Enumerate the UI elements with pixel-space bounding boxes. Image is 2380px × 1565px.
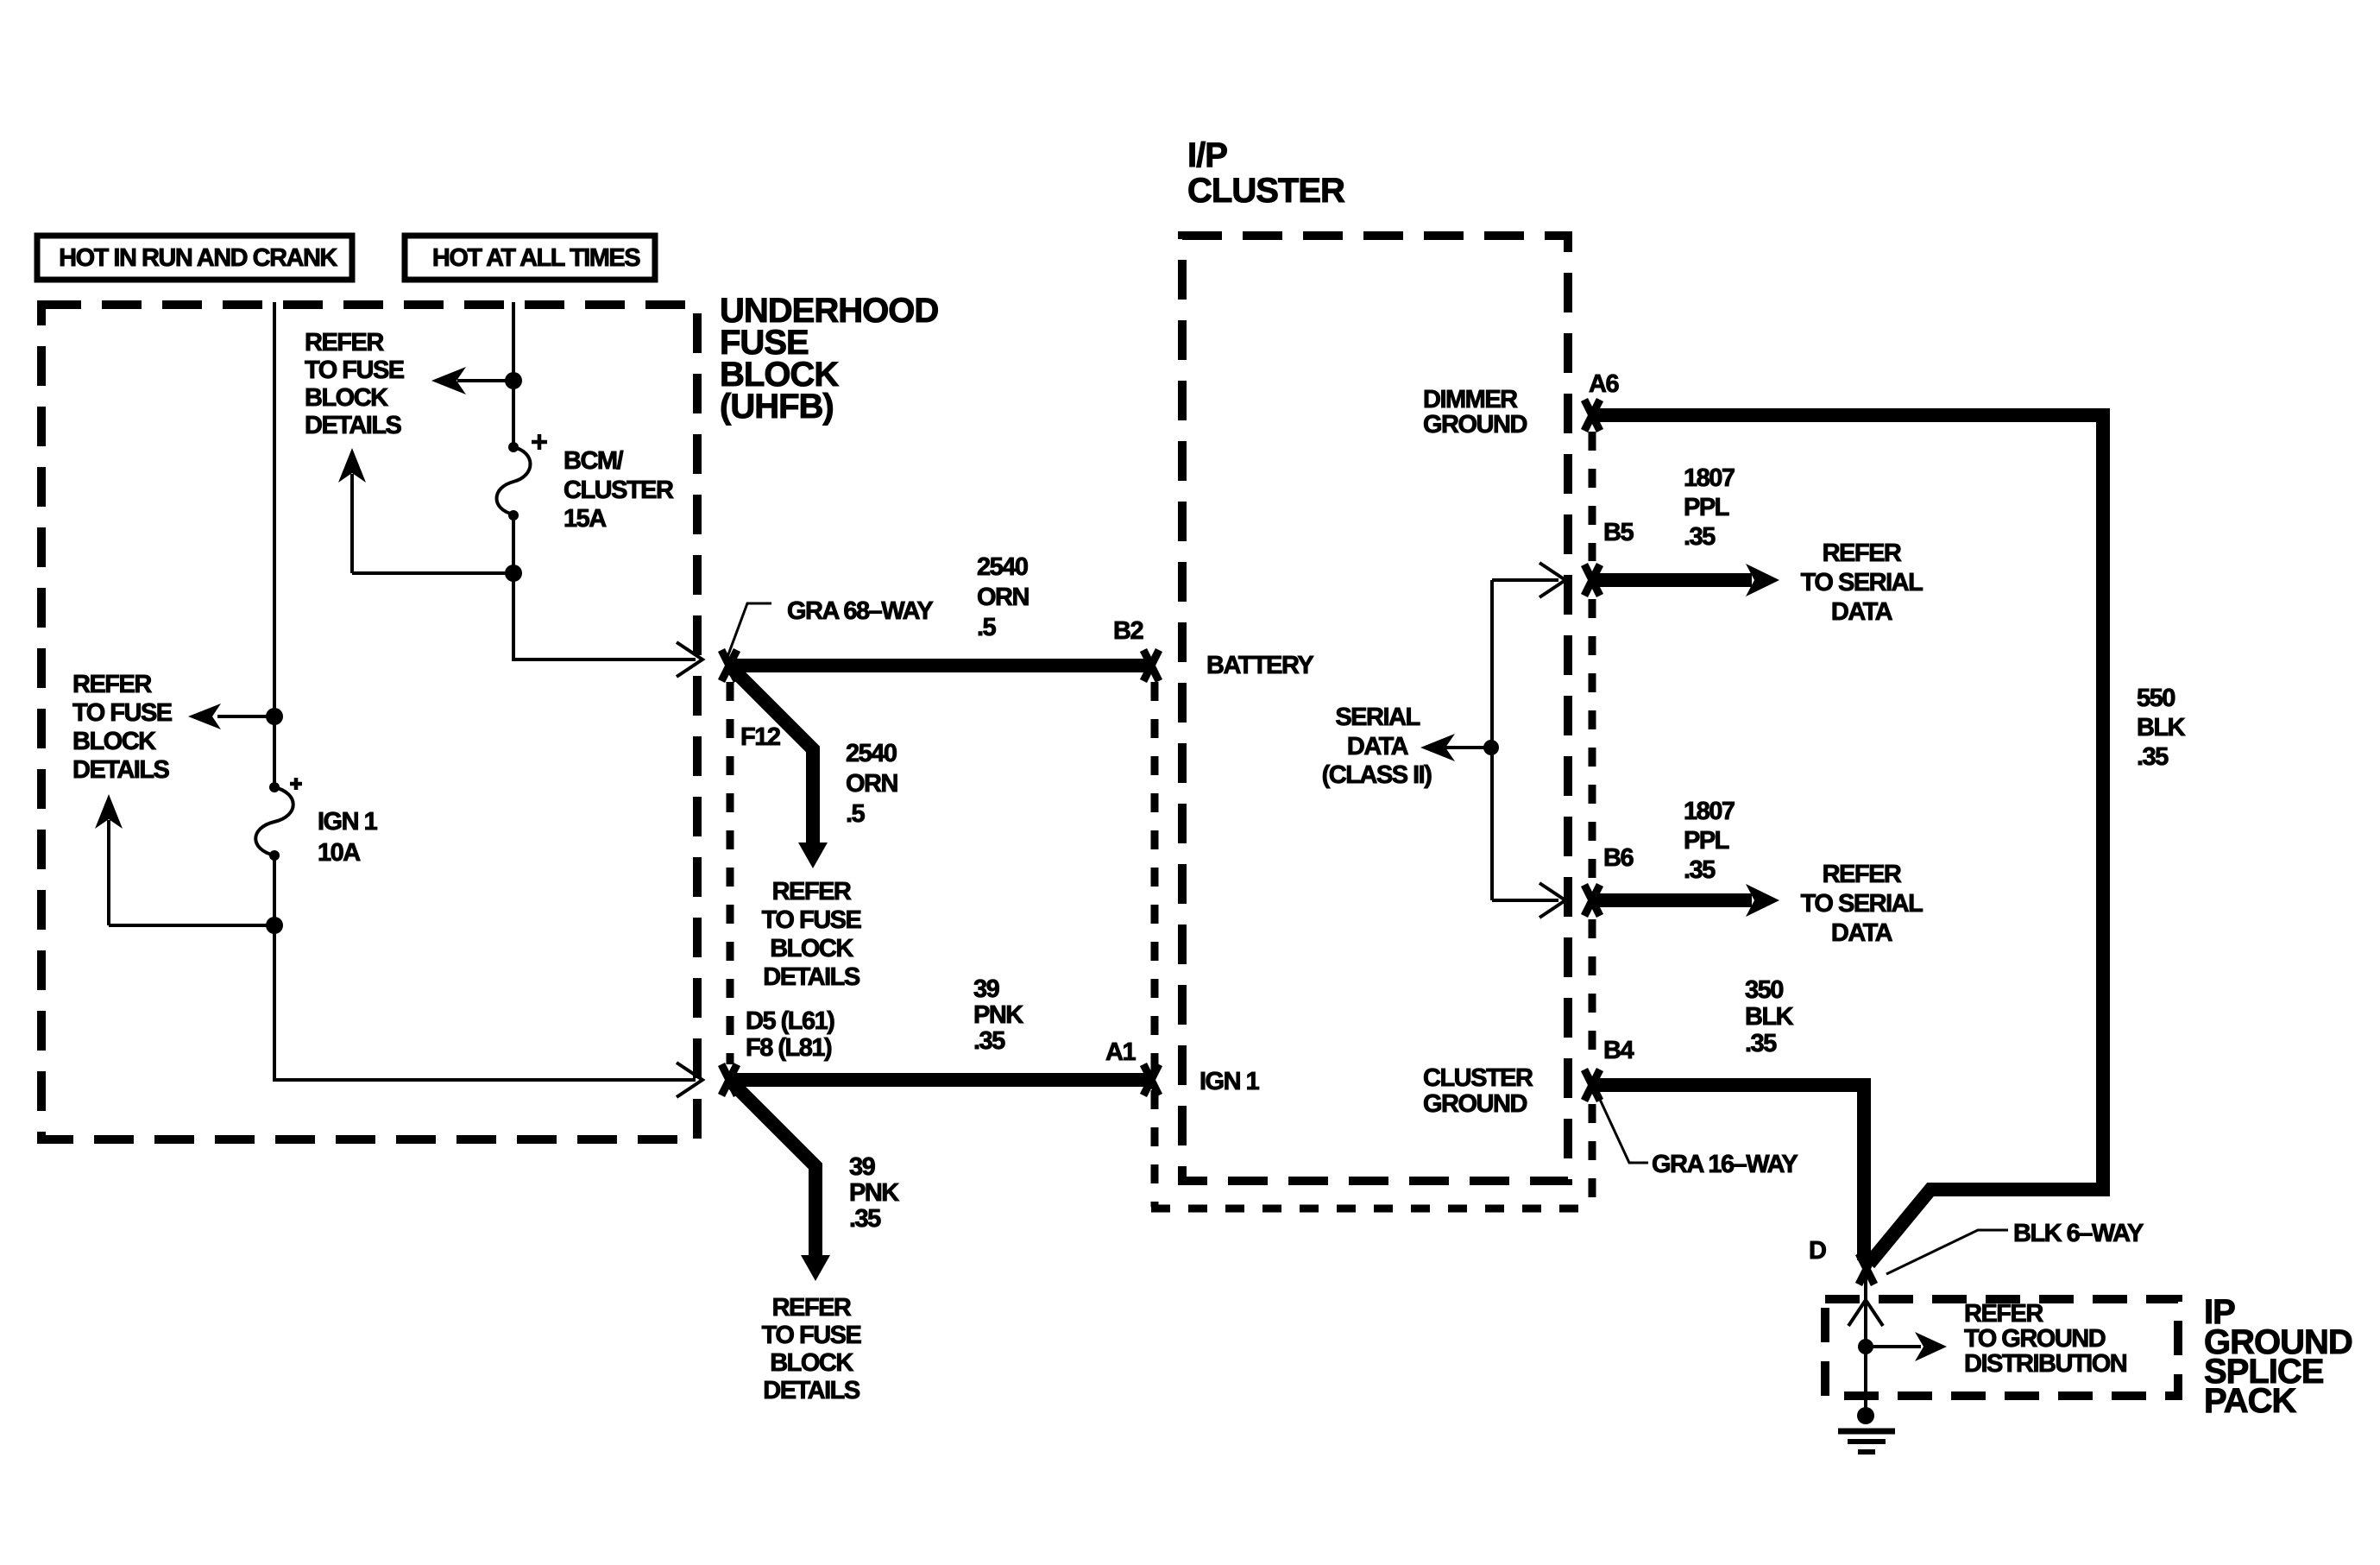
label UNDERHOOD FUSE BLOCK (UHFB)	[720, 292, 938, 426]
wire serial to B5	[1492, 578, 1558, 582]
arrowhead up at refer details 1	[95, 794, 123, 829]
svg-text:39: 39	[849, 1153, 876, 1181]
arrowhead up at refer details 2	[338, 448, 366, 483]
svg-text:B5: B5	[1603, 519, 1634, 546]
node junction dot left branch	[266, 708, 283, 725]
svg-text:TO FUSE: TO FUSE	[762, 906, 862, 934]
open arrowhead at B6	[1539, 883, 1565, 918]
wire IGN1 row to connector	[274, 1078, 696, 1082]
svg-text:BLOCK: BLOCK	[305, 384, 388, 412]
svg-text:REFER: REFER	[1823, 540, 1902, 567]
svg-text:BLOCK: BLOCK	[72, 728, 156, 755]
fuse BCM CLUSTER 15A	[497, 434, 548, 521]
I/P CLUSTER title	[1187, 136, 1345, 210]
svg-text:BLK: BLK	[2137, 714, 2186, 741]
svg-text:1807: 1807	[1684, 798, 1735, 825]
svg-text:BLOCK: BLOCK	[770, 935, 853, 962]
svg-text:IGN 1: IGN 1	[1199, 1068, 1260, 1095]
wire serial to B6	[1492, 899, 1558, 902]
wire arrow to fuse block details left	[217, 715, 274, 718]
svg-text:HOT IN RUN AND CRANK: HOT IN RUN AND CRANK	[59, 244, 337, 272]
arrowhead right B6 to serial data	[1746, 884, 1779, 917]
svg-text:REFER: REFER	[72, 671, 152, 698]
svg-text:TO SERIAL: TO SERIAL	[1801, 569, 1923, 596]
svg-text:DETAILS: DETAILS	[72, 756, 170, 784]
svg-text:1807: 1807	[1684, 464, 1735, 492]
svg-text:A6: A6	[1589, 370, 1619, 398]
svg-text:CLUSTER: CLUSTER	[1423, 1064, 1533, 1092]
UHFB connector face dashed line	[727, 682, 734, 1064]
wire fuse to lower junction	[273, 855, 276, 1082]
label 39 PNK .35 branch	[849, 1153, 899, 1233]
I/P cluster dashed box	[1182, 236, 1568, 1181]
label DIMMER GROUND	[1423, 386, 1527, 439]
cluster connector face dashed line bottom	[1151, 1205, 1596, 1213]
arrowhead left serial data	[1420, 734, 1455, 761]
svg-text:TO GROUND: TO GROUND	[1964, 1325, 2106, 1353]
label 550 BLK .35	[2137, 685, 2186, 771]
wire BCM fuse to junction	[512, 515, 515, 661]
underhood fuse block dashed box	[41, 305, 697, 1139]
wire 1807 PPL .35 thick B5	[1592, 573, 1752, 587]
svg-text:TO FUSE: TO FUSE	[305, 357, 405, 384]
connector D5 F8 X mark	[721, 1064, 737, 1095]
svg-text:CLUSTER: CLUSTER	[564, 476, 674, 504]
svg-text:DETAILS: DETAILS	[763, 1377, 860, 1404]
svg-text:TO FUSE: TO FUSE	[762, 1322, 862, 1349]
label IP GROUND SPLICE PACK	[2204, 1293, 2352, 1420]
svg-text:(CLASS II): (CLASS II)	[1322, 761, 1432, 789]
svg-text:DATA: DATA	[1831, 598, 1893, 626]
arrowhead down refer fuse details 4	[801, 1255, 830, 1281]
leader line BLK 6-WAY	[1886, 1230, 2008, 1274]
svg-text:GROUND: GROUND	[1423, 1090, 1527, 1118]
wire ground splice vertical	[1864, 1273, 1867, 1416]
node ground splice junction dot	[1858, 1339, 1873, 1354]
svg-text:HOT AT ALL TIMES: HOT AT ALL TIMES	[432, 244, 640, 272]
IP ground splice pack dashed box	[1825, 1299, 2178, 1396]
label 39 PNK .35 row A1	[973, 975, 1023, 1055]
connector B6 X mark	[1584, 885, 1600, 916]
svg-text:F12: F12	[740, 723, 780, 751]
wire from HOT IN RUN AND CRANK down	[273, 302, 276, 787]
label REFER TO FUSE BLOCK DETAILS 2	[305, 329, 405, 439]
svg-text:.35: .35	[2137, 743, 2169, 771]
svg-text:TO FUSE: TO FUSE	[72, 699, 173, 727]
svg-text:REFER: REFER	[305, 329, 384, 357]
svg-text:.35: .35	[1684, 523, 1716, 551]
svg-text:.35: .35	[973, 1027, 1005, 1055]
label REFER TO FUSE BLOCK DETAILS 1	[72, 671, 173, 784]
label 1807 PPL .35 B5	[1684, 464, 1735, 551]
svg-text:BCM/: BCM/	[564, 447, 624, 475]
wire 1807 PPL .35 thick B6	[1592, 893, 1752, 907]
svg-text:(UHFB): (UHFB)	[720, 388, 834, 426]
cluster connector face dashed line left	[1151, 682, 1159, 1207]
svg-text:REFER: REFER	[1823, 861, 1902, 888]
connector A1 X mark	[1143, 1064, 1159, 1095]
header box HOT AT ALL TIMES	[405, 236, 655, 280]
wire 550 BLK .35 thick A6 loop	[1592, 415, 2103, 1264]
svg-text:ORN: ORN	[977, 584, 1029, 611]
wire branch to up arrow 2	[352, 474, 513, 573]
wire thick branch down from GRA 68-WAY to fuse details arrow	[729, 666, 813, 845]
wire serial data vertical	[1490, 580, 1494, 900]
svg-text:BLOCK: BLOCK	[770, 1349, 853, 1377]
svg-text:CLUSTER: CLUSTER	[1187, 172, 1345, 210]
svg-text:GROUND: GROUND	[1423, 411, 1527, 439]
svg-text:BLK: BLK	[1745, 1003, 1794, 1031]
svg-text:PPL: PPL	[1684, 494, 1729, 521]
arrowhead down refer fuse details 3	[798, 842, 828, 868]
svg-text:B2: B2	[1113, 617, 1143, 645]
ground symbol	[1838, 1407, 1895, 1452]
node junction dot below BCM fuse	[505, 565, 522, 582]
svg-text:I/P: I/P	[1187, 136, 1227, 174]
label IGN 1 10A	[318, 808, 378, 867]
svg-text:2540: 2540	[846, 740, 897, 767]
label 2540 ORN .5 row B2	[977, 553, 1029, 641]
cluster connector face dashed line right	[1589, 432, 1596, 1208]
connector B2 X mark	[1143, 650, 1159, 681]
arrowhead right ground distribution	[1915, 1332, 1947, 1361]
svg-text:REFER: REFER	[1964, 1300, 2043, 1328]
wire serial data arrow left	[1445, 746, 1492, 749]
header box HOT IN RUN AND CRANK	[37, 236, 352, 280]
svg-text:F8 (L81): F8 (L81)	[746, 1034, 832, 1062]
svg-text:D5 (L61): D5 (L61)	[746, 1007, 834, 1035]
svg-text:ORN: ORN	[846, 770, 897, 798]
connector D X mark	[1859, 1253, 1874, 1284]
label SERIAL DATA (CLASS II)	[1322, 704, 1432, 789]
arrowhead left at refer details 2	[431, 367, 466, 394]
connector GRA 68-WAY X mark	[721, 650, 737, 681]
svg-text:PNK: PNK	[849, 1179, 899, 1207]
open arrowhead at D5 F8 connector	[677, 1063, 702, 1097]
wire arrow to ground distribution	[1866, 1345, 1921, 1348]
svg-text:PNK: PNK	[973, 1001, 1023, 1029]
svg-text:DATA: DATA	[1831, 919, 1893, 947]
svg-text:39: 39	[973, 975, 1000, 1003]
svg-text:.35: .35	[1745, 1030, 1777, 1057]
open arrowhead up ground splice	[1848, 1300, 1883, 1326]
svg-text:10A: 10A	[318, 839, 361, 867]
wire arrow to fuse block details 2	[457, 379, 513, 382]
wire BCM row to connector	[513, 658, 696, 661]
node serial data junction dot	[1483, 740, 1499, 755]
node junction dot BCM branch	[505, 372, 522, 389]
svg-text:DETAILS: DETAILS	[305, 412, 402, 439]
label REFER TO GROUND DISTRIBUTION	[1964, 1300, 2126, 1378]
svg-text:SERIAL: SERIAL	[1335, 704, 1420, 731]
label 350 BLK .35	[1745, 976, 1794, 1057]
svg-text:REFER: REFER	[772, 878, 852, 906]
connector B5 X mark	[1584, 565, 1600, 596]
svg-text:IGN 1: IGN 1	[318, 808, 378, 836]
svg-text:BLK 6–WAY: BLK 6–WAY	[2013, 1220, 2144, 1247]
connector B4 X mark	[1584, 1070, 1600, 1101]
svg-text:350: 350	[1745, 976, 1783, 1004]
svg-text:A1: A1	[1105, 1038, 1136, 1066]
svg-text:2540: 2540	[977, 553, 1028, 581]
wire branch to up arrow	[109, 820, 274, 925]
svg-text:DATA: DATA	[1347, 733, 1409, 760]
wire thick branch down from D5 F8 to fuse details arrow	[729, 1080, 815, 1258]
svg-text:TO SERIAL: TO SERIAL	[1801, 890, 1923, 918]
leader line GRA 16-WAY	[1596, 1092, 1648, 1163]
label BCM CLUSTER 15A	[564, 447, 674, 533]
wire from HOT AT ALL TIMES down	[512, 302, 515, 447]
wire 39 PNK .35 thick A1 row	[729, 1073, 1151, 1087]
svg-text:DETAILS: DETAILS	[763, 963, 860, 991]
open arrowhead at GRA 68-WAY connector	[677, 642, 702, 677]
svg-text:PPL: PPL	[1684, 827, 1729, 855]
label CLUSTER GROUND	[1423, 1064, 1533, 1118]
svg-text:BATTERY: BATTERY	[1206, 652, 1313, 679]
leader line GRA 68-WAY	[727, 603, 771, 657]
svg-text:DIMMER: DIMMER	[1423, 386, 1518, 413]
arrowhead left at refer details 1	[188, 704, 221, 729]
svg-text:PACK: PACK	[2204, 1382, 2296, 1420]
svg-text:GRA 16–WAY: GRA 16–WAY	[1652, 1151, 1798, 1178]
svg-text:15A: 15A	[564, 505, 607, 533]
svg-text:REFER: REFER	[772, 1294, 852, 1322]
arrowhead right B5 to serial data	[1746, 564, 1779, 596]
node junction dot below IGN fuse	[266, 917, 283, 934]
svg-text:D: D	[1809, 1237, 1826, 1265]
label REFER TO FUSE BLOCK DETAILS 3	[762, 878, 862, 991]
svg-text:.5: .5	[846, 800, 866, 828]
label 1807 PPL .35 B6	[1684, 798, 1735, 884]
svg-text:DISTRIBUTION: DISTRIBUTION	[1964, 1350, 2126, 1378]
label REFER TO FUSE BLOCK DETAILS 4	[762, 1294, 862, 1404]
svg-text:.5: .5	[977, 614, 997, 641]
svg-text:GRA 68–WAY: GRA 68–WAY	[787, 597, 933, 625]
wire 350 BLK .35 thick B4 to D	[1592, 1085, 1864, 1260]
wire 2540 ORN .5 thick B2 row	[729, 659, 1151, 672]
label D5 (L61) F8 (L81)	[746, 1007, 834, 1062]
svg-text:B4: B4	[1603, 1037, 1634, 1064]
svg-text:550: 550	[2137, 685, 2175, 712]
svg-text:B6: B6	[1603, 844, 1634, 872]
fuse IGN 1 10A	[255, 778, 302, 861]
connector A6 X mark	[1584, 400, 1600, 431]
svg-text:.35: .35	[849, 1205, 881, 1233]
svg-text:.35: .35	[1684, 856, 1716, 884]
label REFER TO SERIAL DATA 1	[1801, 540, 1923, 626]
label REFER TO SERIAL DATA 2	[1801, 861, 1923, 947]
open arrowhead at B5	[1539, 563, 1565, 597]
label 2540 ORN .5 branch	[846, 740, 897, 828]
